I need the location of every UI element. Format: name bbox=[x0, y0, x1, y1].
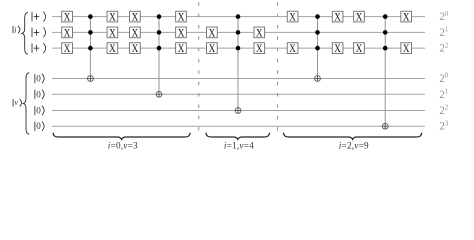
wire |v> qubit 2^1 bbox=[52, 93, 425, 95]
ket label |i> bbox=[13, 26, 20, 35]
svg-text:X: X bbox=[209, 43, 216, 55]
control dot at x=90.4 on |i> qubit 1 bbox=[88, 30, 93, 35]
wire |i> qubit 2^1 bbox=[52, 31, 425, 33]
CNOT target at x=317.5 on |v> qubit 0 bbox=[315, 76, 321, 82]
svg-text:X: X bbox=[256, 27, 263, 39]
X gate at x=211.9 on |i> qubit 2 bbox=[207, 43, 218, 56]
CNOT target at x=385.2 on |v> qubit 3 bbox=[382, 123, 388, 129]
X gate at x=134.9 on |i> qubit 0 bbox=[130, 11, 141, 24]
X gate at x=112.4 on |i> qubit 1 bbox=[107, 27, 118, 40]
X gate at x=292.6 on |i> qubit 2 bbox=[287, 43, 298, 56]
CNOT target at x=159.0 on |v> qubit 1 bbox=[156, 91, 162, 97]
svg-text:X: X bbox=[356, 43, 363, 55]
svg-text:X: X bbox=[64, 43, 71, 55]
X gate at x=359.0 on |i> qubit 0 bbox=[354, 11, 365, 24]
X gate at x=292.6 on |i> qubit 0 bbox=[287, 11, 298, 24]
wire |v> qubit 2^3 bbox=[52, 125, 425, 127]
svg-text:i=2,v=9: i=2,v=9 bbox=[339, 141, 369, 151]
svg-text:X: X bbox=[403, 12, 410, 24]
svg-text:X: X bbox=[289, 12, 296, 24]
svg-text:X: X bbox=[209, 27, 216, 39]
ket |0> on |v> qubit 1 bbox=[35, 89, 44, 99]
svg-text:X: X bbox=[109, 43, 116, 55]
control dot at x=317.5 on |i> qubit 2 bbox=[315, 46, 320, 51]
svg-text:X: X bbox=[334, 43, 341, 55]
X gate at x=259.3 on |i> qubit 2 bbox=[254, 43, 265, 56]
ket label |v> bbox=[13, 98, 22, 107]
brace grouping register v bbox=[23, 73, 29, 135]
CNOT target at x=90.4 on |v> qubit 0 bbox=[88, 76, 94, 82]
X gate at x=134.9 on |i> qubit 2 bbox=[130, 43, 141, 56]
svg-text:X: X bbox=[132, 27, 139, 39]
X gate at x=406.2 on |i> qubit 2 bbox=[401, 43, 412, 56]
svg-text:i=1,v=4: i=1,v=4 bbox=[224, 141, 254, 151]
svg-text:X: X bbox=[64, 12, 71, 24]
control dot at x=159.0 on |i> qubit 1 bbox=[157, 30, 162, 35]
X gate at x=112.4 on |i> qubit 2 bbox=[107, 43, 118, 56]
X gate at x=406.2 on |i> qubit 0 bbox=[401, 11, 412, 24]
wire |v> qubit 2^0 bbox=[52, 78, 425, 80]
brace grouping register i bbox=[22, 12, 28, 54]
X gate at x=181.0 on |i> qubit 0 bbox=[176, 11, 187, 24]
control dot at x=238.0 on |i> qubit 2 bbox=[236, 46, 241, 51]
ket |0> on |v> qubit 3 bbox=[35, 121, 44, 131]
control line column x=385.2 bbox=[384, 17, 386, 130]
control dot at x=317.5 on |i> qubit 1 bbox=[315, 30, 320, 35]
control dot at x=159.0 on |i> qubit 2 bbox=[157, 46, 162, 51]
svg-text:X: X bbox=[256, 43, 263, 55]
underbrace section i=2,v=9 bbox=[283, 133, 421, 140]
svg-text:i: i bbox=[14, 26, 16, 35]
ket |+> on |i> qubit 1 bbox=[32, 27, 46, 37]
X gate at x=181.0 on |i> qubit 2 bbox=[176, 43, 187, 56]
svg-text:0: 0 bbox=[36, 121, 41, 131]
underbrace section i=1,v=4 bbox=[206, 133, 270, 140]
svg-text:X: X bbox=[178, 43, 185, 55]
ket |+> on |i> qubit 0 bbox=[32, 12, 46, 22]
svg-text:v: v bbox=[15, 98, 19, 107]
control dot at x=385.2 on |i> qubit 1 bbox=[383, 30, 388, 35]
control dot at x=90.4 on |i> qubit 2 bbox=[88, 46, 93, 51]
control dot at x=159.0 on |i> qubit 0 bbox=[157, 14, 162, 19]
X gate at x=112.4 on |i> qubit 0 bbox=[107, 11, 118, 24]
control dot at x=385.2 on |i> qubit 0 bbox=[383, 14, 388, 19]
svg-text:X: X bbox=[334, 12, 341, 24]
underbrace section i=0,v=3 bbox=[53, 133, 190, 140]
control line column x=90.4 bbox=[89, 17, 91, 82]
control dot at x=238.0 on |i> qubit 1 bbox=[236, 30, 241, 35]
X gate at x=259.3 on |i> qubit 1 bbox=[254, 27, 265, 40]
control dot at x=238.0 on |i> qubit 0 bbox=[236, 14, 241, 19]
wire |i> qubit 2^2 bbox=[52, 47, 425, 49]
svg-text:X: X bbox=[109, 12, 116, 24]
X gate at x=211.9 on |i> qubit 1 bbox=[207, 27, 218, 40]
CNOT target at x=238.0 on |v> qubit 2 bbox=[235, 108, 241, 114]
X gate at x=67.1 on |i> qubit 2 bbox=[62, 43, 73, 56]
svg-text:X: X bbox=[109, 27, 116, 39]
control line column x=159.0 bbox=[158, 17, 160, 98]
X gate at x=134.9 on |i> qubit 1 bbox=[130, 27, 141, 40]
separator between i=1 and i=2 sections bbox=[277, 2, 279, 136]
svg-text:X: X bbox=[178, 12, 185, 24]
svg-text:0: 0 bbox=[36, 106, 41, 116]
svg-text:X: X bbox=[289, 43, 296, 55]
svg-text:X: X bbox=[132, 43, 139, 55]
control line column x=238.0 bbox=[237, 17, 239, 114]
svg-text:X: X bbox=[64, 27, 71, 39]
ket |+> on |i> qubit 2 bbox=[32, 43, 46, 53]
svg-text:0: 0 bbox=[36, 89, 41, 99]
svg-text:X: X bbox=[178, 27, 185, 39]
ket |0> on |v> qubit 0 bbox=[35, 74, 44, 84]
X gate at x=337.6 on |i> qubit 0 bbox=[332, 11, 343, 24]
control dot at x=90.4 on |i> qubit 0 bbox=[88, 14, 93, 19]
ket |0> on |v> qubit 2 bbox=[35, 106, 44, 116]
control dot at x=385.2 on |i> qubit 2 bbox=[383, 46, 388, 51]
svg-text:0: 0 bbox=[36, 74, 41, 84]
control dot at x=317.5 on |i> qubit 0 bbox=[315, 14, 320, 19]
control line column x=317.5 bbox=[317, 17, 319, 82]
wire |i> qubit 2^0 bbox=[52, 16, 425, 18]
wire |v> qubit 2^2 bbox=[52, 110, 425, 112]
X gate at x=359.0 on |i> qubit 2 bbox=[354, 43, 365, 56]
svg-text:X: X bbox=[403, 43, 410, 55]
X gate at x=67.1 on |i> qubit 1 bbox=[62, 27, 73, 40]
X gate at x=181.0 on |i> qubit 1 bbox=[176, 27, 187, 40]
X gate at x=67.1 on |i> qubit 0 bbox=[62, 11, 73, 24]
svg-text:X: X bbox=[356, 12, 363, 24]
svg-text:i=0,v=3: i=0,v=3 bbox=[108, 141, 138, 151]
X gate at x=337.6 on |i> qubit 2 bbox=[332, 43, 343, 56]
separator between i=0 and i=1 sections bbox=[198, 2, 200, 136]
svg-text:X: X bbox=[132, 12, 139, 24]
